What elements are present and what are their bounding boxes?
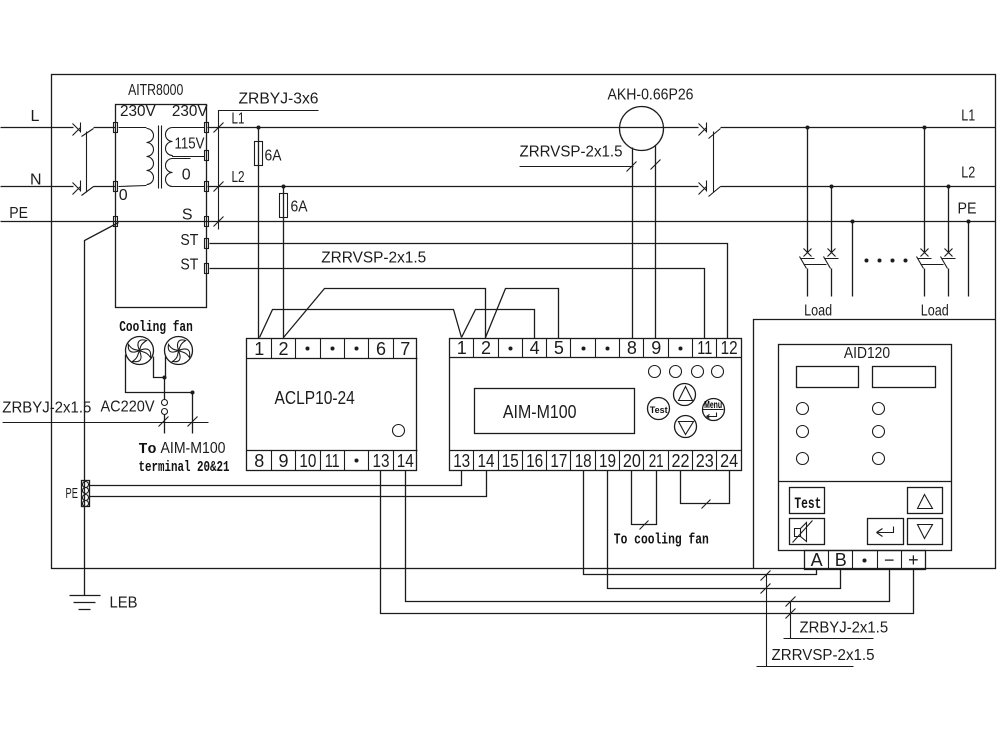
svg-text:13: 13 <box>453 451 470 471</box>
svg-text:17: 17 <box>550 451 567 471</box>
svg-text:7: 7 <box>400 339 410 359</box>
svg-text:L2: L2 <box>961 165 975 182</box>
svg-text:6: 6 <box>376 339 386 359</box>
svg-text:230V: 230V <box>120 103 156 120</box>
svg-text:L1: L1 <box>232 111 245 128</box>
svg-text:L2: L2 <box>232 169 245 186</box>
svg-text:ZRRVSP-2x1.5: ZRRVSP-2x1.5 <box>520 144 623 161</box>
svg-text:0: 0 <box>182 167 191 184</box>
svg-text:6A: 6A <box>291 199 308 216</box>
svg-text:ST: ST <box>180 257 198 274</box>
svg-text:ACLP10-24: ACLP10-24 <box>275 388 355 408</box>
svg-text:10: 10 <box>299 451 316 471</box>
svg-text:ZRBYJ-3x6: ZRBYJ-3x6 <box>239 91 319 108</box>
svg-text:PE: PE <box>958 201 977 218</box>
svg-text:ZRBYJ-2x1.5: ZRBYJ-2x1.5 <box>800 620 889 637</box>
svg-text:N: N <box>30 171 42 188</box>
svg-text:24: 24 <box>720 451 738 471</box>
svg-text:Test: Test <box>650 405 668 415</box>
svg-text:Load: Load <box>921 302 949 319</box>
svg-text:23: 23 <box>696 451 714 471</box>
svg-text:AITR8000: AITR8000 <box>128 82 183 99</box>
svg-text:AIM-M100: AIM-M100 <box>161 440 226 457</box>
svg-text:Cooling fan: Cooling fan <box>119 319 193 336</box>
svg-text:PE: PE <box>66 485 78 502</box>
svg-text:4: 4 <box>530 338 540 358</box>
svg-text:19: 19 <box>599 451 616 471</box>
svg-text:9: 9 <box>278 451 288 471</box>
svg-text:B: B <box>835 550 847 570</box>
svg-text:1: 1 <box>457 338 467 358</box>
svg-text:S: S <box>182 207 193 224</box>
svg-text:11: 11 <box>697 338 712 358</box>
svg-text:15: 15 <box>502 451 519 471</box>
svg-text:2: 2 <box>278 339 288 359</box>
svg-text:18: 18 <box>575 451 592 471</box>
svg-text:terminal 20&21: terminal 20&21 <box>139 459 230 476</box>
svg-text:14: 14 <box>478 451 495 471</box>
svg-text:ZRBYJ-2x1.5: ZRBYJ-2x1.5 <box>2 400 91 417</box>
svg-text:12: 12 <box>721 338 738 358</box>
svg-text:21: 21 <box>649 451 664 471</box>
svg-text:LEB: LEB <box>110 595 138 612</box>
svg-text:8: 8 <box>627 338 637 358</box>
svg-text:11: 11 <box>325 451 340 471</box>
svg-text:8: 8 <box>254 451 264 471</box>
svg-text:2: 2 <box>481 338 491 358</box>
svg-text:ST: ST <box>180 232 198 249</box>
svg-text:9: 9 <box>651 338 661 358</box>
svg-text:0: 0 <box>119 187 128 204</box>
svg-text:1: 1 <box>254 339 264 359</box>
svg-text:A: A <box>811 550 823 570</box>
svg-text:To cooling fan: To cooling fan <box>614 532 709 549</box>
svg-text:115V: 115V <box>175 136 205 153</box>
svg-text:−: − <box>884 550 895 570</box>
svg-text:AC220V: AC220V <box>101 399 155 416</box>
svg-text:5: 5 <box>554 338 564 358</box>
svg-text:14: 14 <box>397 451 414 471</box>
svg-text:L: L <box>31 108 40 125</box>
svg-text:AID120: AID120 <box>844 345 890 362</box>
svg-text:PE: PE <box>9 205 28 222</box>
svg-text:L1: L1 <box>961 108 975 125</box>
svg-text:+: + <box>908 550 919 570</box>
svg-text:6A: 6A <box>265 148 282 165</box>
svg-text:AKH-0.66P26: AKH-0.66P26 <box>608 87 694 104</box>
svg-text:230V: 230V <box>172 103 208 120</box>
svg-text:Load: Load <box>804 302 832 319</box>
svg-text:ZRRVSP-2x1.5: ZRRVSP-2x1.5 <box>321 249 426 266</box>
svg-text:Test: Test <box>794 495 821 513</box>
svg-text:20: 20 <box>623 451 641 471</box>
svg-text:22: 22 <box>672 451 690 471</box>
svg-text:ZRRVSP-2x1.5: ZRRVSP-2x1.5 <box>772 647 875 664</box>
svg-text:16: 16 <box>526 451 543 471</box>
svg-text:To: To <box>139 441 157 458</box>
svg-text:AIM-M100: AIM-M100 <box>503 402 577 422</box>
svg-text:13: 13 <box>373 451 390 471</box>
